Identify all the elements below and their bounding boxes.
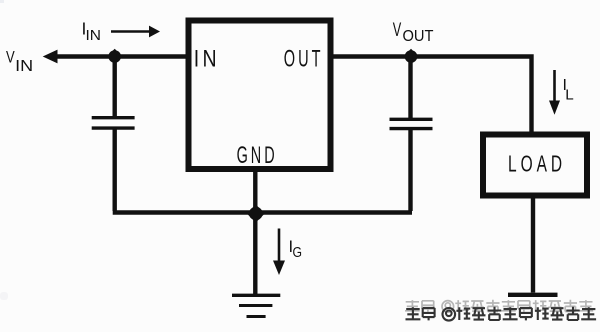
svg-text:G: G [293, 244, 303, 261]
capacitor C1 bottom lead [112, 130, 116, 212]
regulator U1 box [189, 21, 331, 170]
current arrow IL [549, 70, 560, 115]
svg-text:L: L [565, 88, 574, 104]
wire: bottom ground bus [113, 210, 412, 214]
capacitor C1 top lead [112, 54, 116, 116]
edge smudge [0, 292, 8, 300]
wire: GND pin down [253, 169, 257, 294]
capacitor C2 top lead [408, 54, 412, 118]
svg-text:V: V [6, 48, 15, 67]
wire: VIN arrow to IN pin [43, 50, 188, 64]
wire: OUT pin to load corner [331, 57, 532, 136]
node: input junction [107, 49, 123, 65]
svg-text:GND: GND [237, 142, 278, 169]
pin label GND [237, 142, 278, 169]
svg-text:LOAD: LOAD [508, 151, 566, 177]
pin label OUT [284, 46, 324, 73]
current arrow IIN [111, 26, 160, 38]
capacitor C1 plates [92, 118, 135, 128]
corner speck [0, 0, 4, 3]
node: ground junction [247, 205, 265, 223]
svg-text:IN: IN [86, 27, 102, 44]
svg-text:V: V [393, 20, 402, 41]
current arrow IG [273, 229, 285, 276]
label IG [289, 238, 303, 261]
pin label IN [194, 46, 220, 73]
capacitor C2 plates [390, 119, 433, 128]
node: output junction [403, 49, 419, 65]
ground symbol [232, 295, 280, 316]
svg-text:IN: IN [15, 58, 33, 75]
label IIN [82, 19, 102, 45]
svg-text:OUT: OUT [403, 28, 434, 45]
label VOUT [393, 20, 434, 45]
label VIN [6, 48, 33, 75]
watermark row dark [406, 307, 597, 321]
load box [483, 135, 587, 196]
svg-text:OUT: OUT [284, 46, 324, 73]
label LOAD [508, 151, 566, 177]
watermark row faint [405, 300, 593, 312]
ground bar under load [508, 293, 558, 297]
wire: load to ground bar [531, 198, 535, 293]
svg-text:IN: IN [194, 46, 220, 73]
label IL [563, 77, 574, 104]
capacitor C2 bottom lead [408, 130, 412, 211]
